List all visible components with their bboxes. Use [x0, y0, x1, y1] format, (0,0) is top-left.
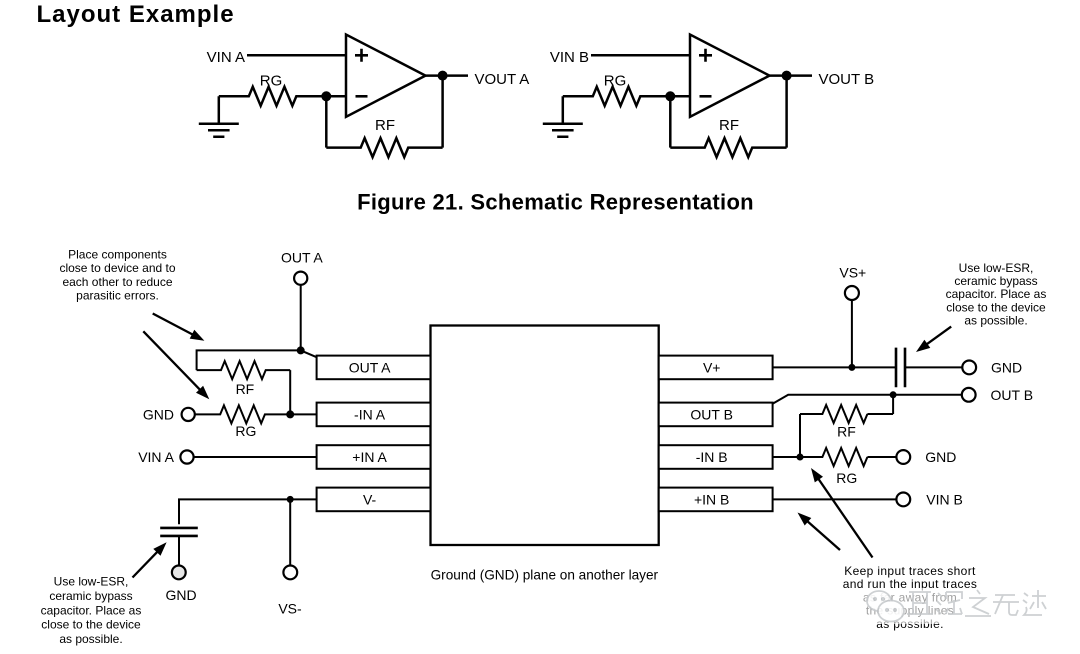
- svg-text:capacitor. Place as: capacitor. Place as: [946, 287, 1047, 301]
- svg-text:parasitic errors.: parasitic errors.: [76, 289, 159, 303]
- svg-text:RF: RF: [837, 423, 856, 439]
- svg-text:Place components: Place components: [68, 248, 167, 262]
- svg-text:VOUT A: VOUT A: [475, 71, 530, 88]
- resistor RF (layout, B): [892, 395, 894, 414]
- svg-text:+IN B: +IN B: [694, 491, 729, 507]
- IC body (device outline): [431, 326, 659, 546]
- svg-text:Layout Example: Layout Example: [37, 1, 235, 28]
- svg-text:GND: GND: [925, 449, 956, 465]
- wire -IN B: [773, 456, 800, 458]
- svg-text:VIN A: VIN A: [207, 49, 245, 66]
- svg-text:VOUT B: VOUT B: [819, 71, 875, 88]
- arrow to RG: [143, 331, 201, 391]
- wire VIN B input: [591, 54, 690, 57]
- resistor RG (layout, B): [800, 448, 867, 466]
- pad -IN A: [317, 403, 431, 427]
- arrow to bypass cap (left): [133, 550, 159, 577]
- svg-text:RG: RG: [260, 72, 283, 89]
- terminal OUT A: [294, 272, 307, 285]
- svg-text:RF: RF: [719, 117, 739, 134]
- node OUT B junction: [890, 391, 897, 398]
- terminal VS-: [283, 566, 297, 580]
- arrow to RF: [153, 314, 195, 336]
- svg-text:RG: RG: [235, 423, 256, 439]
- svg-text:Ground (GND) plane on another: Ground (GND) plane on another layer: [431, 568, 659, 583]
- resistor RG (channel A): [219, 87, 326, 106]
- terminal VIN A: [180, 450, 193, 463]
- svg-text:capacitor. Place as: capacitor. Place as: [41, 603, 142, 617]
- node -IN A junction: [286, 410, 294, 418]
- svg-text:Use low-ESR,: Use low-ESR,: [959, 261, 1034, 275]
- pad +IN A: [317, 445, 431, 469]
- pad -IN B: [659, 445, 773, 469]
- resistor RG (layout, A): [195, 405, 290, 423]
- capacitor bypass (V-): [160, 528, 198, 536]
- wire output B: [770, 74, 813, 77]
- ground (channel A): [199, 96, 239, 137]
- svg-text:ceramic bypass: ceramic bypass: [954, 274, 1037, 288]
- svg-text:-IN A: -IN A: [354, 406, 386, 422]
- svg-text:VS-: VS-: [278, 601, 302, 617]
- wire VS+ stem: [851, 300, 853, 367]
- svg-text:close to the device: close to the device: [41, 618, 141, 632]
- svg-text:RF: RF: [375, 117, 395, 134]
- arrow to bypass cap (right): [925, 327, 951, 346]
- watermark overlay: [851, 588, 1059, 624]
- svg-text:VIN A: VIN A: [138, 449, 174, 465]
- terminal OUT B: [962, 388, 976, 402]
- node V- junction: [287, 496, 294, 503]
- terminal GND (V+ bypass): [962, 361, 976, 375]
- wire V- trace: [179, 499, 317, 524]
- pad OUT B: [659, 403, 773, 427]
- svg-text:each other to reduce: each other to reduce: [62, 275, 172, 289]
- svg-text:close to device and to: close to device and to: [59, 261, 175, 275]
- wire +IN B: [773, 498, 897, 500]
- svg-text:OUT B: OUT B: [690, 406, 733, 422]
- svg-text:RF: RF: [236, 381, 255, 397]
- node output A: [438, 71, 448, 81]
- svg-text:RG: RG: [836, 470, 857, 486]
- svg-text:GND: GND: [991, 359, 1022, 375]
- terminal GND (RG A): [182, 408, 195, 421]
- wire V+ trace: [773, 366, 896, 368]
- ground (channel B): [543, 96, 583, 137]
- wire VS- stem: [289, 499, 291, 565]
- svg-text:OUT B: OUT B: [991, 387, 1034, 403]
- svg-text:-IN B: -IN B: [696, 449, 728, 465]
- resistor RF (layout, A): [197, 361, 291, 379]
- op-amp U1B: [690, 35, 770, 117]
- resistor RF (channel A) feedback: [325, 96, 328, 147]
- svg-text:VIN B: VIN B: [926, 491, 963, 507]
- svg-text:as possible.: as possible.: [59, 632, 122, 646]
- node inverting input A: [326, 95, 346, 98]
- node OUT A junction: [297, 346, 305, 354]
- arrow to +IN B trace: [806, 520, 840, 550]
- svg-text:VIN B: VIN B: [550, 49, 589, 66]
- wire OUT B trace: [773, 395, 962, 404]
- node inverting input B: [670, 95, 690, 98]
- svg-text:+IN A: +IN A: [352, 449, 387, 465]
- resistor RG (channel B): [563, 87, 671, 106]
- terminal GND (V- bypass): [172, 566, 186, 580]
- node -IN B junction: [797, 454, 804, 461]
- wire OUT A trace: [197, 350, 317, 370]
- terminal VS+: [845, 286, 859, 300]
- svg-text:V+: V+: [703, 359, 721, 375]
- terminal VIN B: [896, 493, 910, 507]
- pad V-: [317, 488, 431, 512]
- svg-text:ceramic bypass: ceramic bypass: [49, 589, 132, 603]
- svg-text:close to the device: close to the device: [946, 300, 1046, 314]
- wire OUT A stem: [300, 285, 302, 351]
- wire output A: [426, 74, 469, 77]
- node output B: [782, 71, 792, 81]
- wire VIN A to +IN A: [194, 456, 317, 458]
- resistor RF (channel B) feedback: [669, 96, 672, 147]
- svg-text:VS+: VS+: [839, 265, 866, 281]
- svg-text:Figure 21. Schematic Represent: Figure 21. Schematic Representation: [357, 189, 754, 214]
- svg-text:as possible.: as possible.: [964, 314, 1027, 328]
- svg-text:RG: RG: [604, 72, 627, 89]
- svg-text:Keep input traces short: Keep input traces short: [844, 564, 976, 578]
- pad +IN B: [659, 488, 773, 512]
- arrow to -IN B node: [817, 477, 872, 557]
- svg-text:OUT A: OUT A: [349, 359, 391, 375]
- wire VIN A input: [247, 54, 346, 57]
- capacitor bypass (V+): [896, 348, 905, 388]
- svg-text:GND: GND: [165, 587, 196, 603]
- node V+ junction: [848, 364, 855, 371]
- svg-text:Use low-ESR,: Use low-ESR,: [54, 575, 129, 589]
- svg-text:GND: GND: [143, 406, 174, 422]
- pad V+: [659, 356, 773, 380]
- wire RF to -IN A: [290, 370, 316, 414]
- svg-text:OUT A: OUT A: [281, 249, 323, 265]
- svg-text:V-: V-: [363, 491, 377, 507]
- terminal GND (RG B): [896, 450, 910, 464]
- op-amp U1A: [346, 35, 426, 117]
- pad OUT A: [317, 356, 431, 380]
